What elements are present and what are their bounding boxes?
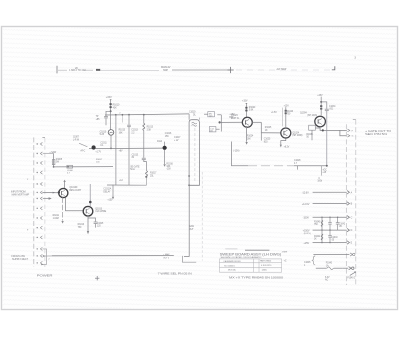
svg-text:ALT SWP: ALT SWP xyxy=(277,68,287,71)
resistor R1015 (vertical x117) xyxy=(116,114,126,185)
title block xyxy=(219,249,287,280)
resistor R1021 (boxed) xyxy=(209,127,219,133)
svg-text:(DCPL): (DCPL) xyxy=(304,233,311,235)
svg-text:+C: +C xyxy=(284,260,287,262)
fuse F1040 xyxy=(316,263,342,270)
wire: base line to Q1023 xyxy=(220,121,243,123)
svg-text:+6.2V: +6.2V xyxy=(284,146,290,148)
resistor R1035 (boxed, Q1034 emitter) xyxy=(306,125,320,140)
power +15V (top of R1010) xyxy=(106,95,112,101)
svg-text:3.9K: 3.9K xyxy=(249,110,254,112)
resistor R1024 (Q1023 emitter) xyxy=(245,126,254,145)
wire: delay box output down xyxy=(188,184,190,256)
svg-text:R1023: R1023 xyxy=(249,107,256,109)
svg-text:R1024: R1024 xyxy=(247,136,254,138)
svg-text:L-R M: L-R M xyxy=(73,139,79,141)
resistor R1008 (vertical, boxed) xyxy=(52,154,63,168)
node: R1010 bottom junction xyxy=(110,110,112,112)
svg-text:MX +X TYPE RM545 SN 100000: MX +X TYPE RM545 SN 100000 xyxy=(229,275,284,279)
node: shielded junction blob xyxy=(92,145,96,149)
node: rail junction a xyxy=(115,114,117,116)
svg-text:C1028: C1028 xyxy=(294,160,301,162)
svg-text:F1040: F1040 xyxy=(326,263,333,265)
resistor R1019 (boxed) xyxy=(204,112,215,118)
svg-text:1 MR 2 TO 4 M: 1 MR 2 TO 4 M xyxy=(69,69,85,72)
table frame xyxy=(219,259,281,272)
svg-text:P1040 2: P1040 2 xyxy=(347,278,356,280)
transistor Q1013 xyxy=(83,206,106,216)
svg-text:D114: D114 xyxy=(157,141,163,143)
svg-text:C1042: C1042 xyxy=(339,223,346,225)
transistor Q1034 xyxy=(300,112,325,126)
wire: +15V rail xyxy=(105,114,189,115)
svg-text:C1010: C1010 xyxy=(100,131,107,133)
svg-text:2.5K: 2.5K xyxy=(147,129,152,131)
capacitor C1043 xyxy=(328,230,338,242)
svg-text:J1007: J1007 xyxy=(73,137,80,139)
svg-text:C1015: C1015 xyxy=(132,154,139,156)
wire: x129 bottom xyxy=(128,149,130,186)
label J1007 xyxy=(73,137,80,142)
net +150V xyxy=(303,228,353,235)
svg-text:(SH 2046): (SH 2046) xyxy=(292,135,302,137)
svg-text:6.3V: 6.3V xyxy=(325,277,330,279)
wire: shield dashed (right of box) xyxy=(201,172,203,261)
svg-text:R1017: R1017 xyxy=(150,173,157,175)
wire: sawtooth bottom bus xyxy=(41,249,174,265)
wire: bottom corner step xyxy=(182,256,196,262)
node: C1010 net dot xyxy=(110,148,112,150)
wire: ladder feed x321.4 xyxy=(320,166,322,176)
label 6.3V xyxy=(325,277,330,282)
capacitor C1009 (junction left stub) xyxy=(104,111,111,125)
svg-text:+1.5V: +1.5V xyxy=(271,112,277,114)
wire: fuse to pin xyxy=(342,267,348,269)
dimension dark dash xyxy=(96,69,100,71)
svg-text:+ SAW: + SAW xyxy=(163,253,170,256)
label +15V boost xyxy=(229,114,235,119)
capacitor C1013 (center) xyxy=(127,115,138,149)
svg-text:SWP: SWP xyxy=(163,70,169,72)
resistor R1011 (Q1010 emitter) xyxy=(53,197,64,223)
svg-text:1.04M: 1.04M xyxy=(53,218,59,220)
connector pins (dots and chevrons) xyxy=(37,142,43,264)
svg-text:SE GATE: SE GATE xyxy=(130,165,140,168)
capacitor C1041 xyxy=(328,217,332,230)
svg-text:+15V: +15V xyxy=(284,105,290,107)
svg-text:C1043: C1043 xyxy=(331,237,338,239)
svg-text:C1019: C1019 xyxy=(189,112,196,114)
label C1017 xyxy=(174,137,181,142)
label C1011 xyxy=(100,143,107,148)
svg-text:15K: 15K xyxy=(165,136,169,138)
svg-text:+8V: +8V xyxy=(119,151,123,153)
svg-text:C1034: C1034 xyxy=(329,106,336,108)
wire: Q1023 to R1025 xyxy=(252,121,261,123)
node: rail junction c xyxy=(143,114,145,116)
wire: Q1034 emitter to pin F xyxy=(320,127,347,131)
svg-text:(SH 1016): (SH 1016) xyxy=(307,115,317,117)
svg-text:R1015: R1015 xyxy=(119,130,126,132)
power +15V (Q1034) xyxy=(317,94,323,116)
net -150V xyxy=(303,216,353,220)
svg-text:+DC: +DC xyxy=(322,169,327,171)
label +DCPL xyxy=(322,169,327,174)
resistor R1013 (squiggle) xyxy=(143,115,154,132)
wire: lower feed line y166.8 xyxy=(54,166,113,168)
wire: step to pin G xyxy=(340,130,347,135)
svg-text:OUT: OUT xyxy=(189,229,194,231)
svg-text:-15V: -15V xyxy=(166,169,171,171)
svg-text:POWER: POWER xyxy=(37,273,54,277)
power +150V arrow (x112) xyxy=(103,185,114,202)
net +12.6V xyxy=(302,202,353,206)
svg-text:R1025: R1025 xyxy=(265,127,272,129)
connector pin G xyxy=(347,134,353,137)
resistor R1023 xyxy=(245,105,256,118)
wire: bottom tie y185 xyxy=(107,184,147,186)
svg-text:+15V: +15V xyxy=(317,94,323,97)
node: base junction dot xyxy=(58,191,60,193)
svg-text:R1013: R1013 xyxy=(78,224,85,226)
node: +15V / C1034 junction xyxy=(320,101,322,103)
node: output junction xyxy=(322,129,324,131)
wire: x143.8 lower tail xyxy=(146,178,148,186)
svg-text:C1016: C1016 xyxy=(165,133,172,135)
svg-text:MAIN AV: MAIN AV xyxy=(161,66,171,69)
svg-text:-12.6V: -12.6V xyxy=(302,192,309,195)
resistor R1013b (Q1013 emitter) xyxy=(78,216,88,231)
svg-text:R1005: R1005 xyxy=(56,159,63,161)
node: return junction xyxy=(326,165,328,167)
svg-text:(45B): (45B) xyxy=(262,269,267,271)
resistor R1026 (Q1024 collector) xyxy=(282,105,293,128)
label C1045 xyxy=(304,262,311,267)
label: gate out xyxy=(365,130,391,136)
wire: pin6 to Q1010 base xyxy=(42,191,58,193)
svg-text:4 SER: 4 SER xyxy=(282,251,288,253)
connector pin F xyxy=(347,129,353,132)
table cell texts xyxy=(223,260,272,272)
svg-text:+15V: +15V xyxy=(106,95,112,99)
svg-text:SEC PIN 5/1: SEC PIN 5/1 xyxy=(365,134,388,136)
label box out xyxy=(189,225,195,231)
svg-text:+150: +150 xyxy=(107,200,113,202)
svg-text:+15V: +15V xyxy=(303,242,309,245)
svg-text:C1015: C1015 xyxy=(97,223,104,225)
svg-text:Q1024: Q1024 xyxy=(292,132,299,134)
delay line DL1019 (tall box) xyxy=(188,112,199,187)
dimension cross mark xyxy=(228,67,234,73)
svg-text:MOD 4A: MOD 4A xyxy=(228,269,236,272)
power +15V (Q1023 collector) xyxy=(242,100,248,105)
brace (heater pair) xyxy=(312,256,315,265)
svg-text:DELAY: DELAY xyxy=(103,190,111,193)
wire: x164.6 down arrow xyxy=(163,150,173,168)
transistor Q1024 xyxy=(281,128,303,138)
svg-text:16K: 16K xyxy=(247,138,251,140)
connector strip (right, dashed) xyxy=(346,120,356,285)
svg-text:+ SAW: + SAW xyxy=(49,151,57,154)
connector J101 edge strip (left) xyxy=(34,137,45,267)
dimension end bracket xyxy=(332,66,335,70)
capacitor C1025 (stub down) xyxy=(261,133,271,144)
svg-text:MAIN VERT AMP: MAIN VERT AMP xyxy=(12,194,30,197)
svg-text:SWEEP BOARD ASSY (LH DWG): SWEEP BOARD ASSY (LH DWG) xyxy=(220,252,282,256)
label TP1010 xyxy=(96,116,100,121)
svg-text:EMIT FL: EMIT FL xyxy=(231,118,240,120)
svg-text:+15V: +15V xyxy=(242,100,248,103)
node Q1014 (dark blob) xyxy=(157,133,172,150)
svg-text:+150V: +150V xyxy=(303,229,310,232)
ground (Q1013 emitter) xyxy=(87,231,89,234)
power -15V stub arrow (Q1024 emitter) xyxy=(280,138,290,148)
svg-text:16K: 16K xyxy=(119,132,123,134)
capacitor C1015 (on x143.8 vertical) xyxy=(132,132,147,171)
transistor Q1023 xyxy=(231,115,252,127)
svg-text:C1045: C1045 xyxy=(304,262,311,264)
resistor R1017 (squiggle) xyxy=(146,171,158,178)
svg-text:C1013: C1013 xyxy=(131,130,138,132)
wire: Q1013 collector up xyxy=(89,184,91,207)
svg-text:PART (SMD): PART (SMD) xyxy=(260,260,271,263)
svg-text:Q1023: Q1023 xyxy=(231,115,238,117)
capacitor C1013b (emitter bypass) xyxy=(88,218,104,228)
resistor R1009 (on feed line) xyxy=(67,159,103,175)
title block top marks xyxy=(225,248,237,250)
net -12.6V xyxy=(302,191,353,195)
svg-text:C1017: C1017 xyxy=(174,137,181,139)
wire: pin2 feed to R1008 xyxy=(43,153,54,155)
svg-text:C1012A: C1012A xyxy=(103,188,111,191)
node: box output to bus xyxy=(184,256,189,258)
capacitor C1010 (variable, circled) xyxy=(100,115,114,149)
svg-text:R1040: R1040 xyxy=(314,221,321,223)
svg-text:REV-CURT: REV-CURT xyxy=(69,189,81,192)
svg-text:R1042: R1042 xyxy=(314,236,321,238)
capacitor C1028 (stub) xyxy=(294,160,301,169)
wire: pin7 arrow stub xyxy=(43,198,51,200)
svg-text:C1025: C1025 xyxy=(264,139,271,141)
capacitor C1042 xyxy=(336,217,346,230)
svg-text:Q1034: Q1034 xyxy=(300,112,307,114)
svg-text:OUT 2: OUT 2 xyxy=(163,258,170,260)
svg-text:(-15V): (-15V) xyxy=(233,151,239,153)
wire: Q1010 to Q1013 xyxy=(66,198,84,211)
svg-text:+ GATE OUT TO: + GATE OUT TO xyxy=(365,130,391,133)
svg-text:4 JUN 1970: 4 JUN 1970 xyxy=(261,265,272,267)
net +15V row xyxy=(303,241,352,245)
svg-text:R1016: R1016 xyxy=(166,163,173,165)
wire: to Q1024 base xyxy=(261,132,281,134)
svg-text:SUPPLY RECT: SUPPLY RECT xyxy=(12,258,29,261)
resistor R1010 xyxy=(110,101,120,115)
resistor R1025 xyxy=(261,122,272,133)
svg-text:+ LV: + LV xyxy=(174,140,179,142)
svg-text:+R-C: +R-C xyxy=(80,150,85,152)
resistor R1042 (between +150V and +15V) xyxy=(314,230,323,242)
svg-text:AC: AC xyxy=(325,279,328,282)
wire: pointer to blob xyxy=(79,143,87,147)
transistor Q1010 xyxy=(59,180,82,198)
svg-text:CLK WIRE: CLK WIRE xyxy=(95,210,106,213)
wire: -15V return y166.4 xyxy=(232,142,249,166)
wire: node down xyxy=(220,115,222,132)
connector pin (fuse) xyxy=(349,267,354,270)
resistor R1040 (between -150V and +150V) xyxy=(314,217,323,230)
node: Q1023 base net xyxy=(219,121,221,123)
node: rail junction b xyxy=(128,114,130,116)
svg-text:+12.6V: +12.6V xyxy=(302,203,310,206)
capacitor C1034 xyxy=(321,102,336,111)
node dots ladder xyxy=(321,217,338,244)
node: R1008 bottom xyxy=(53,166,55,168)
svg-text:5mA: 5mA xyxy=(130,168,135,171)
svg-text:R1013: R1013 xyxy=(147,127,154,129)
svg-text:7 WIRE SEL PN 05 IN: 7 WIRE SEL PN 05 IN xyxy=(158,272,192,276)
arrow P1040 xyxy=(347,271,356,279)
net heater row xyxy=(313,253,355,256)
svg-text:R1011: R1011 xyxy=(53,215,60,217)
svg-text:R1035: R1035 xyxy=(306,134,313,136)
svg-text:R1026: R1026 xyxy=(287,111,294,113)
svg-text:+1.7V: +1.7V xyxy=(95,152,101,154)
svg-text:NO 12345 D: NO 12345 D xyxy=(224,265,235,267)
label SE GATE xyxy=(130,165,140,171)
wire: R1019 right to node xyxy=(217,114,221,116)
node: collector junction xyxy=(89,201,92,204)
wire: base line y148.5 xyxy=(89,147,167,150)
svg-text:CALIBRATION FNS: CALIBRATION FNS xyxy=(223,260,241,263)
register cross mark xyxy=(95,276,99,280)
svg-text:43K: 43K xyxy=(113,106,117,109)
dimension line (top) xyxy=(57,66,333,74)
svg-text:-150V: -150V xyxy=(303,217,310,220)
wire: C1034 lead down to return xyxy=(326,111,328,166)
